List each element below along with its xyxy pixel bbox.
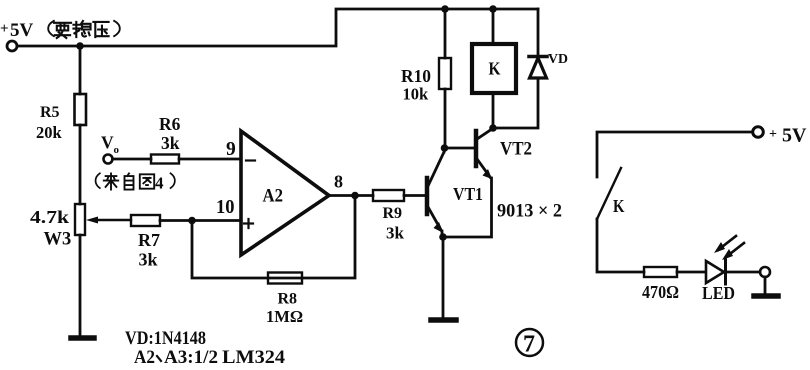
label R8 1MΩ	[266, 291, 303, 327]
svg-text:K: K	[489, 59, 501, 79]
note A2,A3:1/2 LM324	[134, 347, 286, 368]
svg-text:K: K	[613, 196, 625, 216]
wire W3 to ground	[79, 235, 82, 336]
resistor R10	[439, 58, 451, 89]
wire node to diode bottom	[493, 78, 538, 128]
svg-text:LED: LED	[702, 283, 735, 303]
svg-text:R9: R9	[383, 205, 403, 222]
label R9 3k	[383, 205, 405, 243]
wire R10 to node	[444, 89, 447, 148]
svg-text:3k: 3k	[139, 250, 158, 270]
node VT2 collector / relay / diode	[489, 124, 497, 132]
svg-text:VD: VD	[548, 52, 568, 67]
wire LED to terminal	[727, 271, 760, 274]
svg-text:R6: R6	[159, 114, 181, 134]
label VT1	[453, 184, 483, 204]
note VD:1N4148	[125, 328, 206, 349]
label pin 10	[216, 197, 235, 218]
node VT1 collector / R10 / VT2 base	[441, 144, 449, 152]
svg-text:10: 10	[216, 197, 235, 218]
svg-text:R7: R7	[138, 230, 160, 250]
resistor R5	[75, 94, 87, 125]
wire switch to bottom	[597, 219, 644, 272]
label R5 20k	[36, 104, 63, 142]
LED arrows	[718, 236, 736, 250]
svg-text:10k: 10k	[403, 85, 430, 104]
node feedback/pin10	[188, 217, 196, 225]
label VD	[548, 52, 568, 67]
resistor 470	[644, 267, 677, 277]
wire R5 to W3	[79, 125, 82, 204]
svg-text:A2: A2	[263, 186, 284, 207]
svg-text:5V: 5V	[782, 125, 807, 147]
label Vo	[101, 133, 120, 157]
node rail/relay	[489, 5, 497, 13]
wire Vo to R6	[113, 158, 152, 161]
label (来自图4)	[96, 173, 100, 188]
terminal right bottom	[760, 267, 770, 277]
diode VD	[537, 9, 540, 57]
potentiometer W3	[75, 204, 85, 235]
ground (middle)	[431, 317, 456, 323]
switch K	[597, 168, 621, 219]
svg-text:9: 9	[226, 139, 236, 160]
wire to ground (middle)	[442, 237, 445, 318]
wire R7 to pin10	[160, 219, 241, 222]
svg-text:1MΩ: 1MΩ	[266, 307, 303, 326]
svg-text:9013 × 2: 9013 × 2	[497, 202, 562, 222]
circled 7	[516, 329, 543, 356]
label pin 9	[226, 139, 236, 160]
wire op-amp output	[329, 194, 373, 197]
node output	[351, 192, 359, 200]
label +5V (要稳压)	[0, 20, 34, 41]
op-amp A2	[241, 131, 329, 255]
terminal +5V right	[753, 127, 764, 138]
label pin 8	[334, 172, 343, 192]
node emitters	[439, 233, 447, 241]
wire right top	[597, 132, 753, 177]
resistor R6	[151, 155, 179, 164]
wire 470 to LED	[677, 271, 706, 274]
node rail/R5	[76, 42, 84, 50]
LED	[706, 261, 724, 283]
svg-text:5V: 5V	[10, 20, 34, 41]
label R7 3k	[138, 230, 160, 270]
ground (left)	[71, 335, 94, 341]
svg-text:4.7k: 4.7k	[30, 207, 69, 227]
label +5V right	[769, 125, 807, 147]
wire R5 top	[79, 46, 82, 94]
label VT2	[500, 140, 532, 160]
wiper arrow W3	[97, 219, 131, 221]
feedback wire	[192, 196, 355, 279]
svg-text:20k: 20k	[36, 123, 63, 142]
op-amp plus sign	[244, 219, 253, 228]
svg-text:R10: R10	[401, 66, 431, 86]
wire main +5V rail	[17, 9, 538, 46]
svg-text:3k: 3k	[386, 224, 405, 243]
svg-text:R8: R8	[278, 291, 298, 308]
wire rail to R10	[444, 9, 447, 58]
svg-text:R5: R5	[40, 104, 60, 121]
wire R6 to pin9	[179, 158, 241, 161]
node rail/R10	[441, 5, 449, 13]
svg-text:8: 8	[334, 172, 343, 192]
resistor R9	[373, 190, 404, 201]
svg-text:VT2: VT2	[500, 140, 532, 160]
label K relay	[489, 59, 501, 79]
svg-text:o: o	[114, 144, 120, 156]
svg-text:A3:1/2: A3:1/2	[164, 347, 218, 368]
svg-text:3k: 3k	[161, 133, 180, 153]
svg-text:470Ω: 470Ω	[642, 282, 679, 302]
wire relay to rail	[492, 9, 495, 44]
svg-text:LM324: LM324	[222, 347, 286, 368]
op-amp minus sign	[246, 159, 255, 161]
label R6 3k	[159, 114, 181, 153]
label 470Ω	[642, 282, 679, 302]
svg-text:VD:1N4148: VD:1N4148	[125, 328, 206, 349]
terminal +5V left	[7, 41, 17, 51]
relay K	[472, 44, 516, 93]
label A2	[263, 186, 284, 207]
svg-text:W3: W3	[44, 230, 72, 250]
label R10 10k	[401, 66, 431, 104]
transistor VT1	[425, 178, 430, 214]
resistor R7	[131, 215, 160, 226]
terminal Vo	[104, 155, 113, 164]
svg-text:A2: A2	[134, 347, 155, 368]
svg-text:+: +	[769, 127, 777, 142]
ground (right)	[764, 277, 767, 294]
svg-text:4: 4	[155, 174, 164, 193]
resistor R8	[268, 273, 302, 284]
label K switch	[613, 196, 625, 216]
transistor VT2	[474, 131, 479, 166]
svg-text:VT1: VT1	[453, 184, 483, 204]
svg-text:7: 7	[523, 332, 535, 358]
label 9013x2	[497, 202, 562, 222]
label LED	[702, 283, 735, 303]
wire node up to relay	[492, 93, 495, 128]
svg-text:+: +	[0, 21, 9, 37]
wire node to VT2 base	[445, 147, 475, 150]
label 4.7k W3	[30, 207, 71, 250]
svg-text:V: V	[101, 133, 114, 153]
wire R9 to VT1 base	[404, 194, 425, 197]
